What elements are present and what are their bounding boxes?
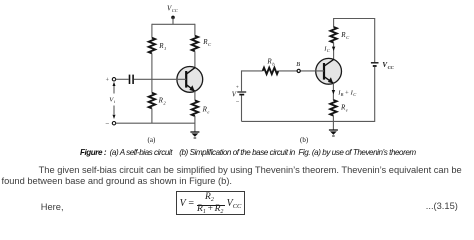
label (b): [300, 136, 309, 144]
current arrow IC: [332, 47, 335, 51]
svg-text:b: b: [272, 61, 275, 66]
svg-text:V: V: [232, 90, 237, 98]
terminal + (a): [112, 78, 115, 81]
equation number: [426, 200, 458, 212]
svg-text:C: C: [208, 42, 212, 47]
label Vi: [109, 97, 115, 104]
wire left column lower (b): [241, 96, 243, 122]
wire right column upper (b): [374, 18, 376, 62]
paragraph line 2: [2, 175, 233, 187]
wire bottom rail (a): [116, 122, 195, 124]
wire base (a): [134, 78, 186, 80]
label Here,: [41, 201, 64, 213]
label IC: [323, 46, 330, 54]
wire collector (b): [333, 43, 335, 60]
label - battery V: [236, 99, 240, 106]
svg-text:B: B: [341, 92, 344, 97]
circuit figure: [0, 0, 474, 148]
label R1: [158, 42, 166, 51]
wire emitter (b): [332, 83, 334, 100]
resistor R1: [149, 38, 155, 54]
transistor emitter arrow (a): [189, 85, 194, 91]
svg-text:e: e: [346, 107, 348, 112]
wire base (b) left: [242, 70, 263, 72]
battery V: [237, 92, 246, 95]
svg-text:−: −: [105, 120, 109, 128]
svg-text:+: +: [345, 89, 349, 96]
label Re (b): [340, 104, 348, 113]
svg-text:e: e: [207, 109, 209, 114]
wire to ground (b): [332, 116, 334, 130]
wire left column upper (b): [241, 70, 243, 91]
wire VCC stub (a): [172, 17, 174, 24]
label VCC (b): [382, 61, 394, 70]
transistor Q (b): [316, 58, 342, 84]
wire left column middle (a): [151, 53, 153, 92]
ground (b): [329, 130, 338, 136]
battery VCC: [371, 63, 379, 66]
svg-text:CC: CC: [388, 65, 395, 70]
label Rb: [266, 58, 275, 67]
figure caption: [80, 148, 416, 157]
capacitor C: [130, 75, 134, 84]
resistor R2: [149, 93, 155, 109]
svg-text:(a): (a): [148, 136, 156, 144]
resistor Re (b): [330, 100, 336, 116]
label VCC (a): [167, 5, 178, 13]
wire bottom rail (b): [242, 120, 375, 122]
current arrow IB+IC: [332, 90, 335, 94]
wire top rail (a): [152, 23, 195, 25]
wire input to capacitor: [116, 78, 129, 80]
svg-text:i: i: [114, 99, 116, 104]
wire right column lower (b): [374, 67, 376, 122]
wire right column upper (a): [194, 24, 196, 36]
svg-text:C: C: [327, 48, 330, 53]
label Re (a): [202, 106, 210, 115]
node B: [297, 69, 300, 72]
svg-text:−: −: [236, 99, 240, 106]
label + battery V: [236, 85, 239, 91]
wire emitter (a): [194, 91, 196, 100]
ground (a): [190, 132, 199, 138]
svg-text:B: B: [296, 61, 300, 68]
label RC (a): [202, 38, 212, 47]
svg-text:1: 1: [164, 46, 166, 51]
wire to ground (a): [194, 116, 196, 132]
resistor Re (a): [192, 100, 198, 116]
svg-text:C: C: [346, 35, 350, 40]
terminal - (a): [112, 122, 115, 125]
label R2: [158, 97, 167, 106]
wire left column lower (a): [151, 108, 153, 123]
svg-text:C: C: [353, 92, 356, 97]
label (a): [148, 136, 156, 144]
Vi arrow upper: [113, 86, 115, 94]
svg-text:CC: CC: [172, 8, 178, 13]
label IB + IC: [337, 89, 356, 97]
label RC (b): [340, 31, 350, 40]
paragraph line 1: [39, 164, 462, 176]
wire top rail (b): [334, 18, 375, 20]
transistor emitter arrow (b): [328, 77, 333, 83]
transistor Q (a): [177, 67, 203, 93]
svg-text:+: +: [236, 85, 239, 91]
svg-text:+: +: [106, 78, 110, 84]
resistor RC (b): [330, 27, 336, 43]
label V battery: [232, 90, 237, 98]
wire collector (a): [194, 51, 196, 67]
node VCC dot (a): [171, 16, 175, 20]
equation 3.15 box: [176, 191, 246, 215]
resistor RC (a): [192, 36, 198, 52]
resistor Rb: [263, 68, 279, 74]
wire collector top (b): [333, 18, 335, 27]
svg-text:(b): (b): [300, 136, 309, 144]
wire left column upper (a): [151, 24, 153, 38]
wire base (b) right: [278, 70, 324, 72]
svg-text:2: 2: [163, 100, 166, 105]
label B: [296, 61, 300, 68]
Vi arrow lower: [113, 106, 115, 115]
